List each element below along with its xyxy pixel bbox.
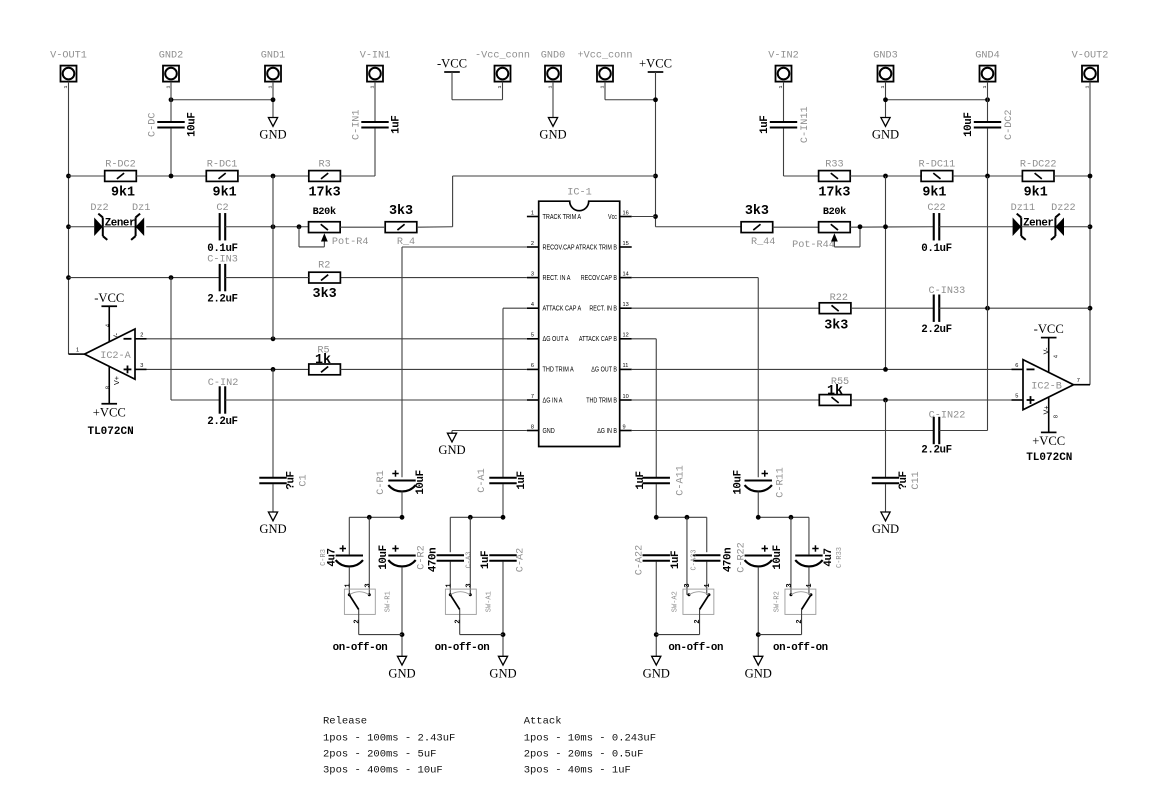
- wire GND3-GND4 tie: [886, 99, 988, 101]
- wire Dz2-Dz1: [103, 226, 136, 228]
- IC-1 pin 8 GND: [527, 430, 539, 432]
- wire C-IN1 down: [374, 128, 376, 176]
- svg-text:TRACK TRIM A: TRACK TRIM A: [543, 213, 582, 221]
- svg-text:V+: V+: [1041, 406, 1050, 415]
- wire R33 to R-DC11: [850, 175, 921, 177]
- wire V-IN2 to C-IN11: [783, 82, 785, 122]
- svg-text:GND: GND: [539, 128, 566, 142]
- svg-text:9k1: 9k1: [922, 186, 946, 201]
- wire pin12 to C-A11 bank: [632, 338, 657, 340]
- svg-text:10uF: 10uF: [415, 470, 427, 494]
- wire Dz1 to C2: [146, 226, 220, 228]
- resistor R3: [309, 171, 341, 182]
- svg-text:1uF: 1uF: [670, 551, 682, 569]
- svg-text:SW-R1: SW-R1: [385, 591, 393, 612]
- svg-text:C-A1: C-A1: [477, 468, 488, 492]
- wire pin5 row: [147, 338, 527, 340]
- svg-text:10uF: 10uF: [772, 545, 784, 569]
- svg-text:9: 9: [623, 424, 626, 430]
- ground bank A2: [652, 656, 661, 665]
- svg-text:IC2-B: IC2-B: [1031, 382, 1062, 393]
- IC-1 pin 7 ΔG IN A: [527, 399, 539, 401]
- svg-text:0.1uF: 0.1uF: [207, 243, 237, 255]
- wire pin4 to C-A1 bank: [503, 307, 527, 309]
- wire +VCC rail vertical: [655, 72, 657, 227]
- wire V-OUT2 column: [1089, 82, 1091, 385]
- capacitor C-A2: [489, 554, 516, 556]
- wire C-A33 to sw pin1: [706, 562, 708, 595]
- IC-1 pin 11 ΔG OUT B: [620, 368, 632, 370]
- svg-text:C-A2: C-A2: [515, 548, 526, 572]
- wire C-R22 to bottom: [757, 567, 759, 656]
- svg-text:470n: 470n: [722, 548, 734, 572]
- svg-text:3k3: 3k3: [389, 204, 413, 219]
- wire pot R44 wiper return: [834, 246, 860, 248]
- power +VCC IC2-A: [101, 403, 117, 405]
- svg-text:+VCC: +VCC: [639, 57, 672, 71]
- svg-text:6: 6: [531, 363, 534, 369]
- svg-text:3pos - 40ms - 1uF: 3pos - 40ms - 1uF: [524, 764, 631, 776]
- svg-text:2pos - 200ms - 5uF: 2pos - 200ms - 5uF: [323, 749, 436, 761]
- svg-text:?uF: ?uF: [285, 471, 297, 489]
- svg-text:on-off-on: on-off-on: [668, 642, 723, 654]
- wire GND0 stub: [552, 82, 554, 118]
- svg-text:B20k: B20k: [313, 206, 336, 218]
- junction (171,277.6): [169, 275, 174, 280]
- wire GND1 stub: [272, 82, 274, 118]
- wire R-DC1 to R3: [238, 175, 309, 177]
- svg-text:Attack: Attack: [524, 716, 562, 728]
- junction (273,176): [271, 174, 276, 179]
- capacitor C1: [259, 477, 286, 479]
- svg-text:C-R22: C-R22: [737, 542, 748, 573]
- power -VCC IC2-B: [1041, 337, 1057, 339]
- capacitor C-DC: [157, 121, 184, 123]
- svg-text:+Vcc_conn: +Vcc_conn: [577, 51, 632, 62]
- svg-text:GND4: GND4: [975, 51, 999, 62]
- capacitor C-A33: [693, 554, 720, 556]
- svg-text:8: 8: [531, 424, 534, 430]
- op-amp IC2-A pin 2 stub: [135, 338, 147, 340]
- capacitor C-R33: [795, 554, 822, 556]
- svg-text:+VCC: +VCC: [1032, 434, 1065, 448]
- junction (171,99.75): [169, 97, 174, 102]
- wire GND2-GND1 tie: [171, 99, 273, 101]
- junction (1090,226.75): [1088, 224, 1093, 229]
- svg-text:3pos - 400ms - 10uF: 3pos - 400ms - 10uF: [323, 764, 443, 776]
- wire GND4 to C-DC2: [987, 82, 989, 122]
- wire R_4 to riser: [417, 226, 453, 228]
- svg-text:4u7: 4u7: [823, 548, 835, 566]
- junction (656.25,517.3): [654, 515, 659, 520]
- svg-text:SW-A2: SW-A2: [671, 591, 679, 612]
- switch SW-R2: [785, 589, 816, 614]
- svg-text:C-IN1: C-IN1: [351, 109, 362, 140]
- svg-text:C-IN11: C-IN11: [800, 106, 811, 143]
- wire mid to sw pin3 A2: [686, 517, 688, 595]
- power +VCC: [648, 71, 664, 73]
- svg-text:2: 2: [454, 619, 462, 623]
- ground GND1: [268, 118, 277, 127]
- svg-text:2.2uF: 2.2uF: [207, 294, 237, 306]
- wire pin2 to C-R1 bank: [402, 246, 527, 248]
- svg-text:2: 2: [796, 619, 804, 623]
- wire GND4 column mid: [987, 176, 989, 308]
- IC-1 pin 15 TRACK TRIM B: [620, 246, 632, 248]
- wire pot R44 to C22: [850, 226, 934, 228]
- wire mid to sw pin3 R2: [790, 517, 792, 595]
- resistor R2: [309, 272, 341, 283]
- svg-text:3k3: 3k3: [824, 318, 848, 333]
- svg-text:9k1: 9k1: [1024, 186, 1048, 201]
- junction (987.5,308.2): [985, 306, 990, 311]
- svg-text:1: 1: [806, 583, 814, 587]
- wire pot rail riser: [452, 176, 454, 227]
- svg-text:2: 2: [353, 619, 361, 623]
- wire feedback column left: [272, 176, 274, 339]
- svg-text:V-OUT1: V-OUT1: [50, 51, 87, 62]
- wire GND3 column mid: [885, 176, 887, 369]
- junction (402,517.3): [400, 515, 405, 520]
- zener diode Dz1: [136, 217, 145, 236]
- connector GND0: [545, 66, 561, 82]
- junction (885.5,226.75): [883, 224, 888, 229]
- wire C11 column: [885, 400, 887, 477]
- junction (470.3,517.3): [468, 515, 473, 520]
- junction (68.5,277.6): [66, 275, 71, 280]
- svg-text:1: 1: [704, 583, 712, 587]
- svg-text:SW-R2: SW-R2: [773, 591, 781, 612]
- resistor R_44: [741, 222, 773, 233]
- svg-text:R-DC11: R-DC11: [919, 160, 956, 171]
- wire R-DC22 to V-OUT2: [1054, 175, 1090, 177]
- svg-text:GND: GND: [872, 522, 899, 536]
- svg-text:1uF: 1uF: [635, 471, 647, 489]
- connector V-OUT1: [61, 66, 77, 82]
- switch SW-A2: [683, 589, 714, 614]
- svg-text:10uF: 10uF: [732, 470, 744, 494]
- svg-text:GND: GND: [543, 427, 556, 435]
- svg-text:10: 10: [623, 394, 629, 400]
- resistor R-DC22: [1022, 171, 1054, 182]
- wire pin8 to GND: [452, 430, 527, 432]
- svg-text:17k3: 17k3: [309, 186, 341, 201]
- junction (885.5,400): [883, 398, 888, 403]
- svg-text:GND0: GND0: [541, 51, 565, 62]
- capacitor C11: [872, 477, 899, 479]
- IC-1 pin 5 ΔG OUT A: [527, 338, 539, 340]
- svg-text:V-: V-: [111, 333, 120, 340]
- svg-text:1: 1: [344, 583, 352, 587]
- wire C22 to Dz11: [939, 226, 1013, 228]
- svg-text:Dz2: Dz2: [90, 203, 108, 214]
- wire C1 to GND: [272, 484, 274, 512]
- svg-text:?uF: ?uF: [898, 471, 910, 489]
- power -VCC IC2-A: [101, 305, 117, 307]
- svg-text:4: 4: [1053, 355, 1059, 358]
- svg-text:-Vcc_conn: -Vcc_conn: [475, 51, 530, 62]
- svg-text:C-A11: C-A11: [676, 465, 687, 496]
- wire C-A1 to junction: [502, 484, 504, 517]
- junction (655.5,99.75): [653, 97, 658, 102]
- svg-text:R22: R22: [830, 293, 848, 304]
- op-amp IC2-A pin 1 output: [69, 353, 85, 355]
- svg-text:7: 7: [531, 394, 534, 400]
- svg-text:TL072CN: TL072CN: [1026, 452, 1072, 464]
- zener diode Dz11: [1013, 217, 1022, 236]
- svg-text:C-A3: C-A3: [465, 552, 473, 569]
- wire noninv column to C1: [272, 369, 274, 477]
- junction (68.5,176): [66, 174, 71, 179]
- svg-text:THD TRIM A: THD TRIM A: [543, 366, 575, 374]
- op-amp IC2-A pin 3 stub: [135, 368, 147, 370]
- svg-text:TL072CN: TL072CN: [87, 426, 133, 438]
- ground GND3: [881, 118, 890, 127]
- capacitor C-IN2: [219, 386, 221, 413]
- svg-text:Dz1: Dz1: [132, 203, 150, 214]
- svg-text:R-DC1: R-DC1: [207, 160, 238, 171]
- IC-1 pin 6 THD TRIM A: [527, 368, 539, 370]
- svg-text:470n: 470n: [428, 548, 440, 572]
- wire R_44 to pot R44: [773, 226, 819, 228]
- capacitor C-IN33: [933, 295, 935, 322]
- wire C-IN3 to R2: [225, 277, 309, 279]
- svg-text:ATTACK CAP B: ATTACK CAP B: [579, 335, 617, 343]
- wire pin6 row: [147, 368, 309, 370]
- svg-text:4: 4: [531, 302, 534, 308]
- svg-text:SW-A1: SW-A1: [486, 591, 494, 612]
- svg-text:C2: C2: [216, 203, 228, 214]
- svg-text:Release: Release: [323, 716, 367, 728]
- ground C11: [881, 512, 890, 521]
- resistor R5: [309, 364, 341, 375]
- junction (655.5,176): [653, 174, 658, 179]
- connector V-IN1: [367, 66, 383, 82]
- svg-text:13: 13: [623, 302, 629, 308]
- wire C-DC to row: [170, 128, 172, 176]
- wire C-IN2 row: [170, 278, 172, 400]
- svg-text:GND: GND: [489, 666, 516, 680]
- switch SW-R1: [344, 589, 375, 614]
- wire R5 to pin6: [340, 368, 527, 370]
- wire C-R2 to bottom: [401, 567, 403, 656]
- wire R55 to opampB: [851, 399, 1012, 401]
- op-amp IC2-A V- pin 4: [108, 306, 110, 342]
- svg-text:THD TRIM B: THD TRIM B: [586, 397, 617, 405]
- junction (860,226.75): [858, 224, 863, 229]
- wire C-R11 to junction: [757, 492, 759, 518]
- op-amp U2A IC2-A: [85, 329, 136, 379]
- wire +Vcc_conn to +VCC rail: [604, 82, 606, 100]
- svg-text:V+: V+: [112, 376, 121, 385]
- IC-1 pin 16 Vcc: [620, 216, 632, 218]
- capacitor C-R2: [388, 554, 415, 556]
- svg-text:16: 16: [623, 210, 629, 216]
- power +VCC IC2-B: [1041, 431, 1057, 433]
- wire pin10 row R55: [632, 399, 820, 401]
- capacitor C2: [219, 213, 221, 240]
- junction (987.5,99.75): [985, 97, 990, 102]
- IC-1 pin 12 ATTACK CAP B: [620, 338, 632, 340]
- svg-text:3: 3: [786, 583, 794, 587]
- connector -Vcc_conn: [495, 66, 511, 82]
- wire pot wiper return: [299, 246, 324, 248]
- svg-text:2: 2: [531, 241, 534, 247]
- junction (686.95,517.3): [685, 515, 690, 520]
- svg-text:12: 12: [623, 333, 629, 339]
- svg-text:5: 5: [531, 333, 534, 339]
- svg-text:ΔG IN A: ΔG IN A: [543, 397, 564, 405]
- svg-text:GND: GND: [388, 666, 415, 680]
- capacitor C-DC2: [974, 121, 1001, 123]
- capacitor C-R1: [388, 479, 415, 481]
- wire bank A2 junction row: [656, 516, 707, 518]
- svg-text:GND: GND: [745, 666, 772, 680]
- op-amp U2B IC2-B: [1023, 360, 1074, 410]
- wire pin13 row R22: [632, 307, 820, 309]
- svg-text:+VCC: +VCC: [93, 405, 126, 419]
- svg-text:10uF: 10uF: [378, 545, 390, 569]
- svg-text:RECT. IN A: RECT. IN A: [543, 274, 572, 282]
- wire pin11 row: [632, 368, 1012, 370]
- svg-text:Zener: Zener: [1023, 218, 1053, 230]
- svg-text:ΔG OUT A: ΔG OUT A: [543, 335, 570, 343]
- junction (987.5,176): [985, 174, 990, 179]
- wire bank R2 junction row: [758, 516, 809, 518]
- svg-text:ΔG OUT B: ΔG OUT B: [591, 366, 617, 374]
- svg-text:GND3: GND3: [873, 51, 897, 62]
- svg-text:1k: 1k: [315, 353, 331, 368]
- wire C-DC2 down: [987, 128, 989, 176]
- svg-text:2.2uF: 2.2uF: [921, 444, 951, 456]
- svg-text:1: 1: [76, 348, 79, 354]
- svg-text:GND: GND: [259, 522, 286, 536]
- svg-text:R3: R3: [318, 160, 330, 171]
- junction (171,176): [169, 174, 174, 179]
- ground GND0: [548, 118, 557, 127]
- svg-text:V-IN2: V-IN2: [768, 51, 799, 62]
- wire R-DC11 to R-DC22: [953, 175, 1023, 177]
- svg-text:V-IN1: V-IN1: [360, 51, 391, 62]
- svg-text:8: 8: [105, 386, 111, 389]
- svg-text:C-R11: C-R11: [775, 467, 786, 498]
- junction (68.5,226.75): [66, 224, 71, 229]
- IC-1 pin 10 THD TRIM B: [620, 399, 632, 401]
- svg-text:4: 4: [105, 324, 111, 327]
- capacitor C-A22: [643, 554, 670, 556]
- svg-text:on-off-on: on-off-on: [435, 642, 490, 654]
- capacitor C-R11: [745, 479, 772, 481]
- ground bank A1: [498, 656, 507, 665]
- capacitor C-IN3: [219, 264, 221, 291]
- junction (273,369.4): [271, 367, 276, 372]
- svg-text:R33: R33: [825, 160, 843, 171]
- IC-1 pin 14 RECOV.CAP B: [620, 277, 632, 279]
- capacitor C22: [933, 213, 935, 240]
- svg-text:GND: GND: [643, 666, 670, 680]
- potentiometer Pot-R4: [309, 222, 341, 233]
- resistor R22: [819, 303, 851, 314]
- resistor R_4: [385, 222, 417, 233]
- svg-text:-VCC: -VCC: [94, 291, 124, 305]
- svg-text:C-A33: C-A33: [691, 549, 699, 570]
- ground bank R2: [754, 656, 763, 665]
- capacitor C-IN22: [933, 417, 935, 444]
- svg-text:2pos - 20ms - 0.5uF: 2pos - 20ms - 0.5uF: [524, 749, 644, 761]
- connector GND2: [163, 66, 179, 82]
- svg-text:C-R1: C-R1: [376, 470, 387, 494]
- svg-text:C-A22: C-A22: [635, 545, 646, 576]
- junction (273,338.8): [271, 336, 276, 341]
- op-amp IC2-B pin 7 output: [1074, 384, 1091, 386]
- capacitor C-R3: [336, 554, 363, 556]
- wire R-DC2 to R-DC1: [136, 175, 206, 177]
- svg-text:14: 14: [623, 271, 629, 277]
- svg-text:TRACK TRIM B: TRACK TRIM B: [579, 244, 617, 252]
- svg-text:RECOV.CAP A: RECOV.CAP A: [543, 244, 580, 252]
- power -VCC: [444, 71, 460, 73]
- ground bank R1: [397, 656, 406, 665]
- svg-text:9k1: 9k1: [213, 186, 237, 201]
- svg-text:10uF: 10uF: [186, 113, 198, 137]
- svg-text:ATTACK CAP A: ATTACK CAP A: [543, 305, 582, 313]
- wire C-R1 to junction: [401, 492, 403, 518]
- svg-text:0.1uF: 0.1uF: [921, 243, 951, 255]
- svg-text:3k3: 3k3: [745, 204, 769, 219]
- IC-1 pin 1 TRACK TRIM A: [527, 216, 539, 218]
- potentiometer Pot-R44: [819, 222, 851, 233]
- svg-text:3: 3: [140, 363, 143, 369]
- svg-text:GND2: GND2: [159, 51, 183, 62]
- wire bank R1 junction row: [349, 516, 402, 518]
- svg-text:C-R2: C-R2: [416, 545, 427, 569]
- svg-text:1k: 1k: [827, 384, 843, 399]
- svg-text:GND: GND: [438, 443, 465, 457]
- svg-text:2: 2: [694, 619, 702, 623]
- svg-text:Pot-R4: Pot-R4: [332, 237, 369, 248]
- svg-text:RECOV.CAP B: RECOV.CAP B: [581, 274, 617, 282]
- wire Dz22 to V-OUT2 col: [1064, 226, 1090, 228]
- wire bank A1 junction row: [450, 516, 503, 518]
- svg-text:ΔG IN B: ΔG IN B: [597, 427, 617, 435]
- wire R22 to C-IN33: [851, 307, 934, 309]
- wire pot to R_4: [340, 226, 385, 228]
- ground C1: [268, 512, 277, 521]
- svg-text:on-off-on: on-off-on: [773, 642, 828, 654]
- svg-text:2.2uF: 2.2uF: [921, 324, 951, 336]
- IC-1 pin 9 ΔG IN B: [620, 430, 632, 432]
- svg-text:C-IN22: C-IN22: [929, 411, 966, 422]
- wire C-A11 to junction: [655, 484, 657, 517]
- svg-text:1: 1: [445, 583, 453, 587]
- switch SW-A1: [445, 589, 476, 614]
- junction (1090,308.2): [1088, 306, 1093, 311]
- svg-text:6: 6: [1015, 363, 1018, 369]
- connector GND4: [980, 66, 996, 82]
- svg-text:1pos - 10ms - 0.243uF: 1pos - 10ms - 0.243uF: [524, 732, 656, 744]
- wire C-A22 to bottom: [655, 562, 657, 657]
- resistor R-DC1: [206, 171, 238, 182]
- svg-text:C-IN33: C-IN33: [929, 286, 966, 297]
- capacitor C-IN11: [770, 121, 797, 123]
- svg-text:Pot-R44: Pot-R44: [792, 240, 835, 251]
- svg-text:C-IN3: C-IN3: [207, 254, 238, 265]
- svg-text:IC-1: IC-1: [567, 188, 591, 199]
- svg-text:1pos - 100ms - 2.43uF: 1pos - 100ms - 2.43uF: [323, 732, 455, 744]
- op-amp IC2-B V- pin 4: [1048, 338, 1050, 373]
- wire pin9 row: [632, 430, 934, 432]
- junction (790.95,517.3): [789, 515, 794, 520]
